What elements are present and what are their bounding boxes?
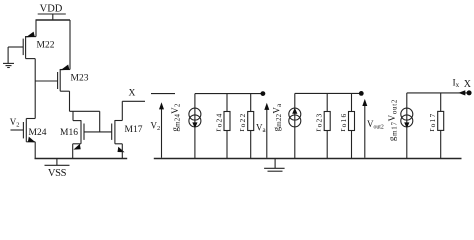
transistor M24	[11, 119, 47, 143]
svg-text:M23: M23	[71, 74, 89, 84]
svg-text:VDD: VDD	[40, 4, 63, 15]
wire M16 source to rail	[72, 144, 74, 159]
wire node a M22 drain to M24 drain	[34, 59, 36, 119]
wire M17 drain riser	[121, 101, 123, 120]
current arrow ix on rail	[458, 90, 465, 95]
wire rail to M22 source	[35, 20, 37, 37]
node X dot small-signal	[467, 90, 472, 95]
junction dot rail2	[359, 91, 364, 96]
svg-text:V2: V2	[10, 117, 20, 129]
voltage arrow Vout2	[362, 99, 367, 158]
svg-text:gm17Vout2: gm17Vout2	[387, 99, 399, 141]
transistor M23	[58, 65, 89, 92]
bottom rail ss ground net	[154, 158, 462, 160]
ground symbol ss	[264, 159, 285, 172]
current source gm24V2	[189, 94, 201, 159]
svg-text:M22: M22	[37, 41, 55, 51]
wire rail1 node Va	[195, 93, 263, 95]
wire gate net M16 to M17	[84, 131, 112, 133]
wire M17 source to rail	[121, 144, 123, 159]
wire M23 gate branch	[35, 80, 57, 82]
svg-text:M16: M16	[60, 128, 78, 138]
wire rail2	[295, 92, 362, 94]
svg-text:X: X	[464, 79, 472, 90]
VDD rail bar	[38, 13, 66, 15]
resistor ro23	[324, 93, 330, 158]
wire mirror node down	[99, 111, 101, 132]
svg-text:gm22Va: gm22Va	[272, 103, 284, 131]
transistor M22	[8, 32, 55, 59]
svg-text:X: X	[129, 89, 136, 99]
svg-text:Va: Va	[256, 123, 267, 135]
wire rail3	[407, 92, 469, 94]
svg-text:M24: M24	[29, 128, 47, 138]
power VSS symbol	[45, 159, 70, 180]
voltage arrow V2	[159, 102, 164, 158]
wire M23 drain down	[69, 91, 71, 111]
svg-text:ro22: ro22	[236, 113, 247, 132]
wire rail to M23 source	[69, 20, 71, 70]
current source gm22Va	[289, 93, 301, 158]
svg-text:ro16: ro16	[337, 113, 348, 132]
wire VDD stub	[52, 14, 54, 20]
transistor M17	[112, 120, 143, 152]
svg-text:ro23: ro23	[313, 113, 324, 132]
resistor ro22	[248, 94, 254, 159]
svg-text:VSS: VSS	[48, 168, 67, 176]
svg-text:Vout2: Vout2	[367, 119, 384, 131]
svg-text:Ix: Ix	[453, 79, 460, 90]
wire M24 source to rail	[34, 142, 36, 159]
junction dot node Va	[261, 91, 266, 96]
current source gm17Vout2	[401, 93, 413, 159]
resistor ro24	[224, 94, 230, 159]
wire mirror node horizontal	[70, 110, 100, 112]
voltage arrow Va	[264, 103, 269, 158]
svg-text:gm24V2: gm24V2	[170, 103, 182, 131]
node X terminal dash small-signal port	[151, 93, 175, 95]
VSS rail	[35, 158, 128, 160]
wire top rail	[36, 19, 71, 21]
resistor ro17	[438, 93, 444, 159]
svg-text:ro17: ro17	[426, 113, 437, 132]
svg-text:V2: V2	[151, 121, 161, 133]
ground M22 gate bias	[3, 47, 14, 68]
wire node X horizontal	[122, 100, 145, 102]
svg-text:M17: M17	[125, 125, 143, 135]
transistor M16	[60, 111, 84, 149]
svg-text:ro24: ro24	[213, 113, 224, 132]
resistor ro16	[349, 93, 355, 158]
